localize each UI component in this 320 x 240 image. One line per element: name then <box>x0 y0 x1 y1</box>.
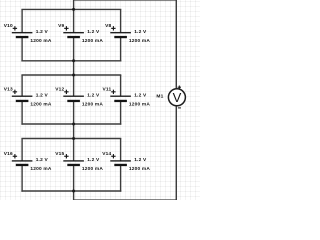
wire battery V11 top lead <box>120 75 122 97</box>
wire mid connector rows1-2 <box>73 61 75 75</box>
wire battery V12 top lead <box>73 75 75 97</box>
wire battery V12 bottom lead <box>73 101 75 125</box>
wire voltmeter top lead <box>175 0 177 89</box>
wire battery V14 bottom lead <box>120 165 122 192</box>
wire battery V8 bottom lead <box>120 37 122 62</box>
svg-text:1200 mA: 1200 mA <box>82 166 103 172</box>
battery V13 <box>4 86 52 107</box>
battery V14 <box>102 151 150 172</box>
svg-text:1200 mA: 1200 mA <box>129 38 150 44</box>
svg-text:1200 mA: 1200 mA <box>30 102 51 108</box>
wire rail row3 bottom <box>21 190 121 192</box>
battery V8 <box>105 23 150 44</box>
svg-text:V16: V16 <box>4 151 13 157</box>
svg-text:1200 mA: 1200 mA <box>30 166 51 172</box>
voltmeter - terminal mark <box>178 107 181 108</box>
wire battery V16 bottom lead <box>21 165 23 192</box>
wire rail row1 bottom <box>21 60 121 62</box>
wire battery V15 bottom lead <box>73 165 75 192</box>
wire battery V14 top lead <box>120 139 122 162</box>
battery V9 <box>58 23 103 44</box>
node junction rail4 <box>72 137 75 140</box>
wire <box>74 0 177 1</box>
svg-text:V13: V13 <box>4 86 13 92</box>
wire top feed (node to voltmeter +) <box>73 0 75 9</box>
wire top rail row1 <box>21 8 121 10</box>
node junction rail2 <box>72 74 75 77</box>
battery V16 <box>4 151 52 172</box>
svg-text:V8: V8 <box>105 23 111 29</box>
wire bottom return <box>74 199 177 201</box>
wire rail row2 top <box>21 74 121 76</box>
svg-text:1.2 V: 1.2 V <box>36 157 49 163</box>
svg-text:1200 mA: 1200 mA <box>129 166 150 172</box>
svg-text:V15: V15 <box>55 151 64 157</box>
svg-text:1.2 V: 1.2 V <box>36 29 49 35</box>
svg-text:1200 mA: 1200 mA <box>82 102 103 108</box>
wire battery V16 top lead <box>21 139 23 162</box>
voltmeter + terminal mark <box>178 87 181 88</box>
battery V15 <box>55 151 103 172</box>
svg-text:1200 mA: 1200 mA <box>30 38 51 44</box>
svg-text:1200 mA: 1200 mA <box>82 38 103 44</box>
wire rail row2 bottom <box>21 123 121 125</box>
wire battery V13 top lead <box>21 75 23 97</box>
battery V10 <box>4 23 52 44</box>
wire bottom feed drop <box>73 191 75 200</box>
svg-text:1.2 V: 1.2 V <box>134 29 147 35</box>
svg-text:1.2 V: 1.2 V <box>36 93 49 99</box>
wire battery V11 bottom lead <box>120 101 122 125</box>
voltmeter M1 <box>156 86 185 109</box>
svg-text:V14: V14 <box>102 151 111 157</box>
svg-text:V12: V12 <box>55 86 64 92</box>
svg-text:1200 mA: 1200 mA <box>129 102 150 108</box>
node junction rail5 <box>72 190 75 193</box>
wire rail row3 top <box>21 138 121 140</box>
wire battery V13 bottom lead <box>21 101 23 125</box>
battery V12 <box>55 86 103 107</box>
node junction rail1 <box>72 59 75 62</box>
svg-text:V9: V9 <box>58 23 64 29</box>
node junction rail3 <box>72 123 75 126</box>
svg-text:1.2 V: 1.2 V <box>134 157 147 163</box>
battery V11 <box>103 86 151 107</box>
wire battery V9 bottom lead <box>73 37 75 62</box>
wire battery V15 top lead <box>73 139 75 162</box>
svg-text:1.2 V: 1.2 V <box>87 93 100 99</box>
wire voltmeter bottom lead <box>175 106 177 201</box>
node junction top <box>72 8 75 11</box>
wire battery V10 top lead <box>21 9 23 33</box>
svg-text:V10: V10 <box>4 23 13 29</box>
wire battery V9 top lead <box>73 9 75 33</box>
wire battery V8 top lead <box>120 9 122 33</box>
svg-text:V11: V11 <box>103 86 112 92</box>
wire battery V10 bottom lead <box>21 37 23 62</box>
svg-text:1.2 V: 1.2 V <box>87 157 100 163</box>
svg-text:M1: M1 <box>156 93 163 99</box>
svg-text:V: V <box>173 90 182 105</box>
svg-text:1.2 V: 1.2 V <box>87 29 100 35</box>
svg-text:1.2 V: 1.2 V <box>134 93 147 99</box>
wire mid connector rows2-3 <box>73 124 75 139</box>
